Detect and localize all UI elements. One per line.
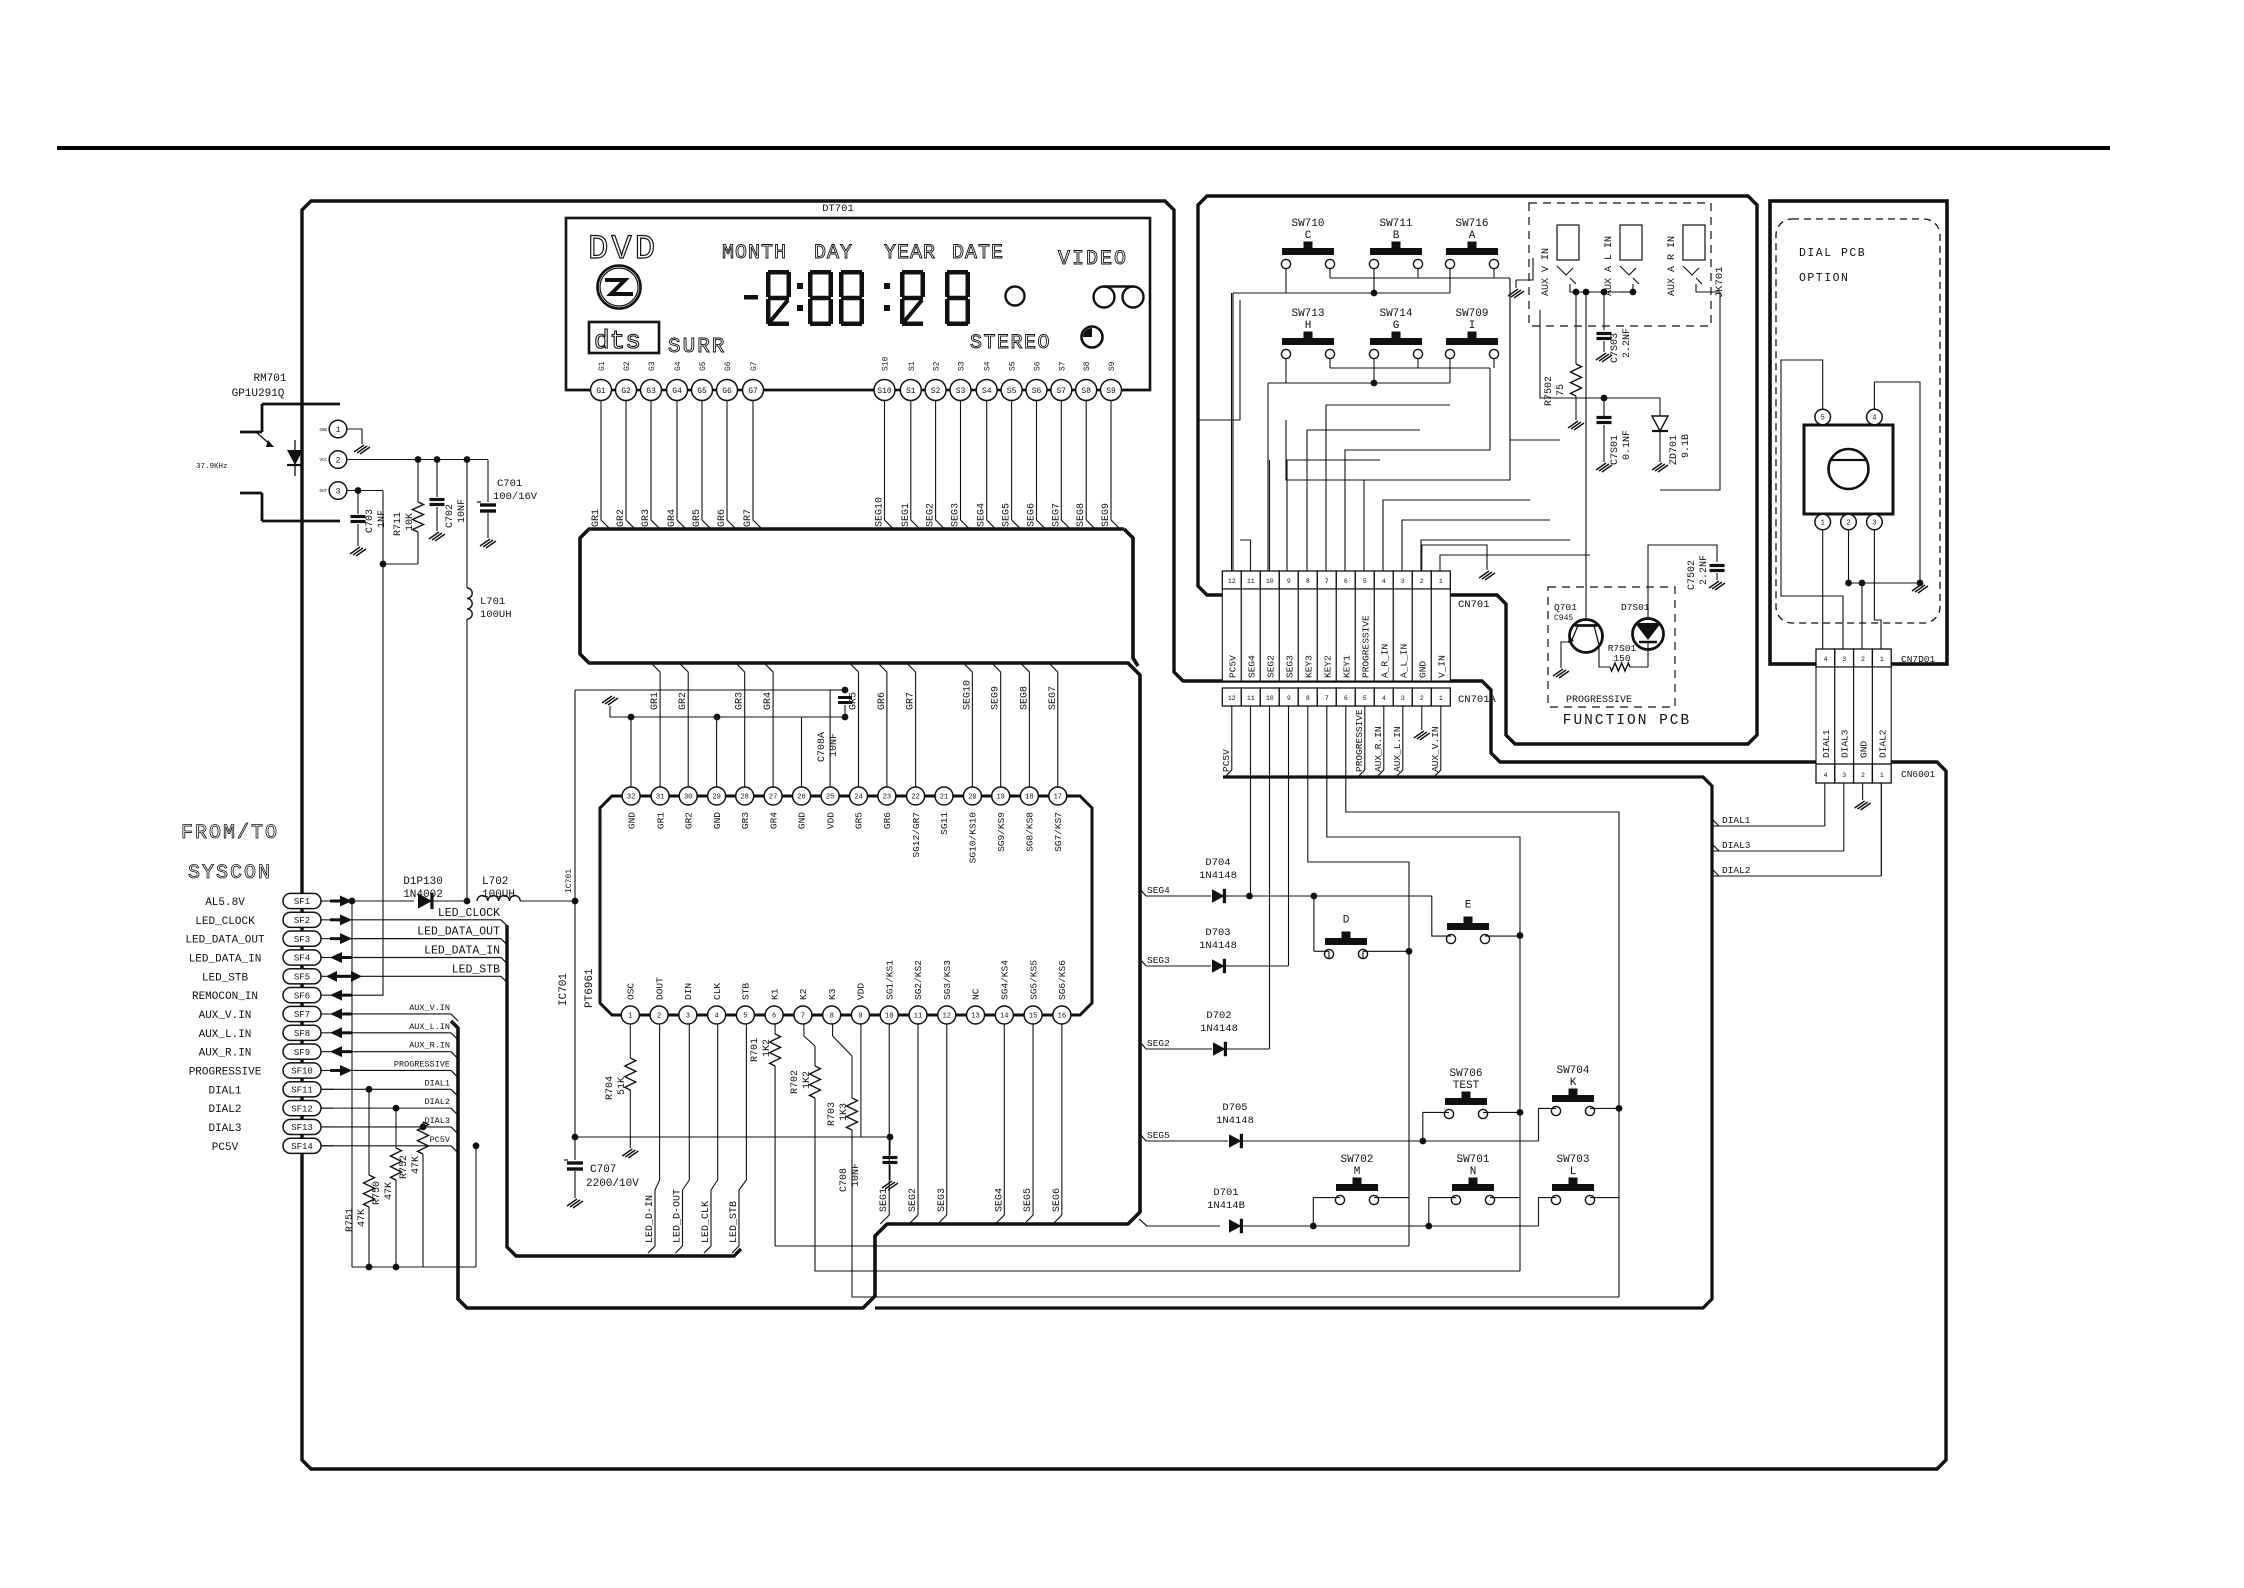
svg-text:S8: S8 <box>1083 361 1092 371</box>
JK701 dashed jack box <box>1529 203 1711 326</box>
svg-text:SEG6: SEG6 <box>1027 503 1038 527</box>
SW701 N <box>1452 1184 1494 1191</box>
svg-text:G7: G7 <box>748 387 758 396</box>
svg-text:VCC: VCC <box>319 459 327 463</box>
svg-text:S7: S7 <box>1056 387 1066 396</box>
svg-text:10NF: 10NF <box>851 1163 862 1187</box>
svg-text:G1: G1 <box>596 387 606 396</box>
svg-text:NC: NC <box>971 988 982 1000</box>
SEG1-SEG6 flags to bus <box>888 1024 890 1216</box>
VDD pin25 to C708A <box>829 690 831 788</box>
svg-text:A_R_IN: A_R_IN <box>1379 644 1390 678</box>
main display PCB border <box>302 201 1946 1469</box>
svg-text:A_L_IN: A_L_IN <box>1398 644 1409 678</box>
svg-text:GR6: GR6 <box>882 812 893 829</box>
svg-text:SG8/KS8: SG8/KS8 <box>1025 812 1036 852</box>
svg-text:GR1: GR1 <box>591 509 602 527</box>
svg-text:G7: G7 <box>750 361 759 371</box>
wires to CN701 cols <box>1287 460 1380 571</box>
svg-text:S6: S6 <box>1034 361 1043 371</box>
svg-text:S2: S2 <box>931 387 941 396</box>
Q701 base / LED wires up <box>1585 292 1587 587</box>
switch row wiring <box>1285 269 1287 294</box>
svg-text:3: 3 <box>1842 772 1846 779</box>
svg-text:11: 11 <box>914 1013 922 1021</box>
svg-text:SW713: SW713 <box>1291 308 1324 320</box>
SW716 A <box>1446 248 1498 255</box>
R702 1K2 <box>803 1024 805 1037</box>
svg-text:20: 20 <box>968 794 976 802</box>
svg-text:SG2/KS2: SG2/KS2 <box>913 960 924 1000</box>
svg-text:1: 1 <box>1880 656 1884 663</box>
svg-text:DATE: DATE <box>952 242 1004 265</box>
svg-text:GR5: GR5 <box>849 692 860 710</box>
CN701 pin up-wires <box>1231 293 1233 571</box>
svg-text:2: 2 <box>1846 520 1850 528</box>
wire pin3 right then down <box>358 490 383 492</box>
svg-text:R704: R704 <box>605 1076 616 1100</box>
svg-text:SEG10: SEG10 <box>962 680 973 710</box>
svg-text:25: 25 <box>826 794 834 802</box>
cassette icon <box>1094 287 1115 308</box>
svg-text:1: 1 <box>1439 578 1443 585</box>
svg-text:2: 2 <box>1861 656 1865 663</box>
C707 electrolytic <box>567 1161 583 1164</box>
svg-text:9: 9 <box>1287 695 1291 702</box>
svg-text:YEAR: YEAR <box>884 242 936 265</box>
svg-text:LED_CLOCK: LED_CLOCK <box>195 916 255 928</box>
svg-text:1K2: 1K2 <box>762 1039 773 1057</box>
svg-text:K: K <box>1570 1077 1577 1089</box>
svg-text:S10: S10 <box>877 387 892 396</box>
svg-text:SEG4: SEG4 <box>1246 655 1257 678</box>
svg-text:A: A <box>1469 230 1476 242</box>
svg-text:SF7: SF7 <box>294 1010 310 1020</box>
svg-text:4: 4 <box>1872 415 1876 423</box>
R703 1K2 <box>832 1024 834 1037</box>
svg-text:SF1: SF1 <box>294 897 310 907</box>
svg-text:21: 21 <box>940 794 948 802</box>
SW713 H <box>1282 338 1334 345</box>
svg-text:G5: G5 <box>697 387 707 396</box>
R711 10K <box>417 460 419 503</box>
svg-text:SF8: SF8 <box>294 1029 310 1039</box>
svg-text:3: 3 <box>1842 656 1846 663</box>
svg-text:2: 2 <box>1861 772 1865 779</box>
svg-text:OSC: OSC <box>626 983 637 1000</box>
svg-text:11: 11 <box>1247 695 1255 702</box>
svg-text:DIAL1: DIAL1 <box>1821 729 1832 758</box>
pullup bottom rail <box>352 1266 476 1268</box>
svg-text:10: 10 <box>885 1013 893 1021</box>
small circle indicator <box>1006 287 1025 306</box>
svg-text:SF4: SF4 <box>294 954 310 964</box>
svg-text:SEG6: SEG6 <box>1052 1188 1063 1212</box>
svg-text:SEG5: SEG5 <box>1147 1130 1170 1141</box>
svg-text:2: 2 <box>1420 695 1424 702</box>
svg-text:PROGRESSIVE: PROGRESSIVE <box>1354 709 1365 772</box>
svg-text:SW709: SW709 <box>1455 308 1488 320</box>
pin2 to CN7D01 col3 <box>1861 583 1863 649</box>
svg-text:DIAL PCB: DIAL PCB <box>1799 247 1866 260</box>
svg-text:FROM/TO: FROM/TO <box>181 822 279 845</box>
svg-text:REMOCON_IN: REMOCON_IN <box>192 991 258 1003</box>
svg-text:GR4: GR4 <box>763 692 774 710</box>
svg-text:1N4148: 1N4148 <box>1199 870 1237 882</box>
svg-text:G4: G4 <box>674 361 683 371</box>
svg-text:I: I <box>1469 320 1476 332</box>
SEG4 row with D704 <box>1140 895 1146 897</box>
svg-text:SURR: SURR <box>668 336 726 359</box>
svg-text:DIAL1: DIAL1 <box>208 1085 241 1097</box>
inner bus CN701A to dial area <box>875 777 1712 1308</box>
svg-text:1K3: 1K3 <box>839 1103 850 1121</box>
svg-text:AUX_R.IN: AUX_R.IN <box>1373 726 1384 772</box>
ZD701 9.1B zener <box>1652 416 1668 431</box>
svg-text:CLK: CLK <box>712 983 723 1000</box>
svg-text:GR1: GR1 <box>655 812 666 829</box>
svg-text:SEG7: SEG7 <box>1048 686 1059 710</box>
svg-text:S4: S4 <box>984 361 993 371</box>
FUNCTION PCB border <box>1198 196 1757 744</box>
svg-text:12: 12 <box>943 1013 951 1021</box>
svg-text:GR2: GR2 <box>678 692 689 710</box>
svg-text:SW714: SW714 <box>1379 308 1412 320</box>
svg-text:LED_DATA_IN: LED_DATA_IN <box>424 944 500 957</box>
svg-text:GND: GND <box>712 812 723 829</box>
svg-text:1N4148: 1N4148 <box>1199 940 1237 952</box>
svg-text:8: 8 <box>1306 695 1310 702</box>
svg-text:SF13: SF13 <box>291 1123 313 1133</box>
C702 10nF <box>436 460 438 498</box>
svg-text:2: 2 <box>657 1013 661 1021</box>
svg-text:Q701: Q701 <box>1554 602 1577 613</box>
svg-text:DIAL2: DIAL2 <box>424 1097 450 1107</box>
svg-text:SEG2: SEG2 <box>926 503 937 527</box>
svg-text:N: N <box>1470 1166 1477 1178</box>
svg-text:6: 6 <box>1344 695 1348 702</box>
svg-text:SEG3: SEG3 <box>937 1188 948 1212</box>
SW709 I <box>1446 338 1498 345</box>
svg-text:1: 1 <box>1880 772 1884 779</box>
svg-text:SG10/KS10: SG10/KS10 <box>968 812 979 864</box>
svg-text:PC5V: PC5V <box>212 1142 239 1154</box>
svg-text:S8: S8 <box>1081 387 1091 396</box>
svg-text:SEG9: SEG9 <box>1101 503 1112 527</box>
svg-text:SF2: SF2 <box>294 916 310 926</box>
svg-text:7: 7 <box>801 1013 805 1021</box>
svg-text:28: 28 <box>740 794 748 802</box>
svg-text:7: 7 <box>1325 695 1329 702</box>
svg-text:DIAL1: DIAL1 <box>424 1078 450 1088</box>
wire RM701 out down to SF6 <box>382 564 384 996</box>
svg-text:LED_STB: LED_STB <box>729 1201 740 1243</box>
svg-text:GR6: GR6 <box>717 509 728 527</box>
svg-text:DIAL2: DIAL2 <box>208 1104 241 1116</box>
svg-text:AUX_V.IN: AUX_V.IN <box>199 1010 252 1022</box>
svg-text:4: 4 <box>1382 695 1386 702</box>
svg-text:9.1B: 9.1B <box>1681 434 1692 458</box>
svg-text:2: 2 <box>1420 578 1424 585</box>
svg-text:C945: C945 <box>1554 614 1573 623</box>
switch D <box>1325 938 1367 945</box>
svg-text:1N4148: 1N4148 <box>1216 1115 1254 1127</box>
svg-text:GR3: GR3 <box>740 812 751 829</box>
svg-text:G2: G2 <box>621 387 631 396</box>
svg-text:SW710: SW710 <box>1291 218 1324 230</box>
SF6 REMOCON wire <box>346 994 383 996</box>
svg-text:SEG5: SEG5 <box>1023 1188 1034 1212</box>
svg-text:RM701: RM701 <box>253 373 286 385</box>
svg-text:100/16V: 100/16V <box>493 491 538 503</box>
CN701A gnd pin2 <box>1421 706 1423 730</box>
svg-text:G4: G4 <box>672 387 682 396</box>
svg-text:STEREO: STEREO <box>970 332 1051 355</box>
svg-text:CN701: CN701 <box>1458 599 1490 611</box>
IC701 top pins <box>622 787 640 805</box>
switch E <box>1447 923 1489 930</box>
svg-text:4: 4 <box>1823 772 1827 779</box>
svg-text:AUX_R.IN: AUX_R.IN <box>199 1048 252 1060</box>
svg-text:GR4: GR4 <box>768 812 779 829</box>
svg-text:10NF: 10NF <box>829 733 840 757</box>
DIAL PCB border <box>1770 201 1947 664</box>
svg-text:SG4/KS4: SG4/KS4 <box>1000 960 1011 1000</box>
svg-text:ZD701: ZD701 <box>1669 435 1680 465</box>
svg-text:C703: C703 <box>365 509 376 533</box>
PROGRESSIVE dashed box <box>1548 587 1675 707</box>
svg-text:75: 75 <box>1556 384 1567 396</box>
svg-text:SF14: SF14 <box>291 1142 313 1152</box>
SW711 B <box>1370 248 1422 255</box>
VFD display DT701 <box>566 218 1150 390</box>
svg-text:GR7: GR7 <box>743 509 754 527</box>
bus top-right end chamfer <box>1124 529 1138 666</box>
svg-text:M: M <box>1354 1166 1361 1178</box>
svg-text:SEG2: SEG2 <box>1265 655 1276 678</box>
svg-text:1: 1 <box>336 426 341 435</box>
svg-text:D705: D705 <box>1222 1102 1247 1114</box>
svg-text:SEG1: SEG1 <box>879 1188 890 1212</box>
SW703 L <box>1552 1184 1594 1191</box>
DIAL PCB dashed inner <box>1776 219 1940 623</box>
svg-text:SG6/KS6: SG6/KS6 <box>1057 960 1068 1000</box>
wire pin2 VCC rail <box>347 459 488 461</box>
svg-text:LED_CLOCK: LED_CLOCK <box>438 907 500 920</box>
svg-text:PC5V: PC5V <box>1221 749 1232 772</box>
svg-text:SEG8: SEG8 <box>1076 503 1087 527</box>
R701 1K2 <box>774 1024 776 1035</box>
svg-text:B: B <box>1393 230 1400 242</box>
wires bus to IC701 top pins <box>651 663 660 672</box>
svg-text:V_IN: V_IN <box>1436 655 1447 678</box>
svg-text:SYSCON: SYSCON <box>188 862 272 885</box>
svg-text:23: 23 <box>883 794 891 802</box>
K1 K2 K3 routing <box>775 1066 1409 1246</box>
svg-text:SG5/KS5: SG5/KS5 <box>1028 960 1039 1000</box>
svg-text:SEG8: SEG8 <box>1019 686 1030 710</box>
svg-text:D7S01: D7S01 <box>1621 602 1650 613</box>
svg-text:GR6: GR6 <box>877 692 888 710</box>
svg-text:G3: G3 <box>648 361 657 371</box>
svg-text:DIAL2: DIAL2 <box>1722 865 1751 876</box>
svg-text:1: 1 <box>1821 520 1825 528</box>
svg-text:GR4: GR4 <box>667 509 678 527</box>
svg-text:15: 15 <box>1029 1013 1037 1021</box>
svg-text:10NF: 10NF <box>457 499 468 523</box>
svg-text:S3: S3 <box>958 361 967 371</box>
D701 row <box>1139 1219 1147 1226</box>
svg-text:26: 26 <box>797 794 805 802</box>
svg-text:R701: R701 <box>750 1038 761 1062</box>
svg-text:D701: D701 <box>1213 1187 1238 1199</box>
svg-text:6: 6 <box>772 1013 776 1021</box>
SF1 AL5.8V wire: diode D1P130 + L702 <box>352 900 414 902</box>
svg-text:DOUT: DOUT <box>654 977 665 1000</box>
svg-text:LED_DATA_OUT: LED_DATA_OUT <box>417 926 500 939</box>
svg-text:17: 17 <box>1054 794 1062 802</box>
svg-text:G6: G6 <box>722 387 732 396</box>
svg-text:VIDEO: VIDEO <box>1058 248 1128 271</box>
svg-text:S9: S9 <box>1108 361 1117 371</box>
svg-text:G2: G2 <box>623 361 632 371</box>
AL5.8V pullup rail <box>351 901 353 1267</box>
svg-text:VDD: VDD <box>856 983 867 1000</box>
SW710 C <box>1282 248 1334 255</box>
wire pin1 to gnd <box>347 429 362 444</box>
SF arrows <box>330 900 341 903</box>
svg-text:47K: 47K <box>411 1156 422 1174</box>
svg-text:KEY3: KEY3 <box>1303 655 1314 678</box>
svg-text:D1P130: D1P130 <box>403 876 443 888</box>
svg-text:SF3: SF3 <box>294 935 310 945</box>
svg-text:AUX_L.IN: AUX_L.IN <box>199 1029 252 1041</box>
svg-text:2.2NF: 2.2NF <box>1699 555 1710 585</box>
svg-text:PROGRESSIVE: PROGRESSIVE <box>1566 695 1632 706</box>
svg-text:SEG4: SEG4 <box>977 503 988 527</box>
svg-text:22: 22 <box>911 794 919 802</box>
svg-text:GND: GND <box>797 812 808 829</box>
svg-text:27: 27 <box>769 794 777 802</box>
svg-text:LED_STB: LED_STB <box>452 963 500 976</box>
svg-text:D704: D704 <box>1205 857 1230 869</box>
svg-text:8: 8 <box>1306 578 1310 585</box>
svg-text:5: 5 <box>1363 695 1367 702</box>
svg-text:FUNCTION PCB: FUNCTION PCB <box>1563 713 1691 729</box>
svg-text:G5: G5 <box>699 361 708 371</box>
svg-text:2: 2 <box>336 456 341 465</box>
svg-text:SEG7: SEG7 <box>1051 503 1062 527</box>
svg-text:13: 13 <box>971 1013 979 1021</box>
svg-text:LED_DATA_OUT: LED_DATA_OUT <box>185 935 265 947</box>
svg-text:C7S01: C7S01 <box>1610 435 1621 465</box>
svg-text:STB: STB <box>741 983 752 1000</box>
svg-text:S10: S10 <box>882 356 891 371</box>
svg-text:R702: R702 <box>790 1070 801 1094</box>
svg-text:S4: S4 <box>982 387 992 396</box>
LED bus staircase from SF2-SF5 <box>346 919 501 921</box>
svg-text:GR1: GR1 <box>650 692 661 710</box>
svg-text:L702: L702 <box>482 876 508 888</box>
svg-text:SEG9: SEG9 <box>991 686 1002 710</box>
CN701 connector <box>1222 571 1241 589</box>
svg-text:R752: R752 <box>399 1155 410 1179</box>
VDD wire to C708 <box>575 1136 890 1138</box>
IC701 bottom pins <box>621 1006 639 1024</box>
svg-text:GR7: GR7 <box>906 692 917 710</box>
KEY column verticals <box>1250 706 1252 896</box>
svg-text:2200/10V: 2200/10V <box>586 1178 639 1190</box>
svg-text:GR5: GR5 <box>854 812 865 829</box>
svg-text:12: 12 <box>1228 695 1236 702</box>
svg-text:10K: 10K <box>405 513 416 531</box>
svg-text:14: 14 <box>1000 1013 1008 1021</box>
IC701 supply vertical <box>574 690 576 1160</box>
svg-text:DIAL2: DIAL2 <box>1877 729 1888 758</box>
svg-text:SEG3: SEG3 <box>1284 655 1295 678</box>
svg-text:16: 16 <box>1058 1013 1066 1021</box>
svg-text:4: 4 <box>715 1013 719 1021</box>
svg-text:4: 4 <box>1823 656 1827 663</box>
svg-text:S7: S7 <box>1058 361 1067 371</box>
svg-text:DIAL3: DIAL3 <box>1722 840 1751 851</box>
svg-text:SW701: SW701 <box>1456 1154 1489 1166</box>
svg-text:GR3: GR3 <box>735 692 746 710</box>
svg-text:SG11: SG11 <box>939 812 950 835</box>
7-segment digits <box>744 295 758 300</box>
svg-text:SF12: SF12 <box>291 1104 313 1114</box>
svg-text:CN6001: CN6001 <box>1901 769 1936 780</box>
svg-text:SW703: SW703 <box>1556 1154 1589 1166</box>
svg-text:R751: R751 <box>345 1208 356 1232</box>
svg-text:LED_D-IN: LED_D-IN <box>645 1195 656 1243</box>
C7502 2.2NF <box>1690 545 1717 562</box>
svg-text:32: 32 <box>627 794 635 802</box>
svg-text:dts: dts <box>594 326 641 356</box>
svg-text:PROGRESSIVE: PROGRESSIVE <box>1360 615 1371 678</box>
transistor Q701 <box>1570 620 1603 653</box>
svg-text:S6: S6 <box>1032 387 1042 396</box>
svg-text:K1: K1 <box>769 988 780 1000</box>
svg-text:8: 8 <box>830 1013 834 1021</box>
svg-text:1: 1 <box>628 1013 632 1021</box>
svg-text:PC5V: PC5V <box>1227 655 1238 678</box>
svg-text:3: 3 <box>1872 520 1876 528</box>
svg-text:R750: R750 <box>372 1181 383 1205</box>
svg-text:SEG3: SEG3 <box>1147 955 1170 966</box>
svg-text:GR5: GR5 <box>692 509 703 527</box>
svg-text:D703: D703 <box>1205 927 1230 939</box>
svg-text:G3: G3 <box>646 387 656 396</box>
svg-text:47K: 47K <box>384 1182 395 1200</box>
svg-text:G6: G6 <box>724 361 733 371</box>
SW714 G <box>1370 338 1422 345</box>
R704 51K on OSC <box>629 1024 631 1059</box>
svg-text:51K: 51K <box>617 1077 628 1095</box>
svg-text:SEG2: SEG2 <box>908 1188 919 1212</box>
svg-text:S1: S1 <box>908 361 917 371</box>
encoder wires <box>1781 360 1843 649</box>
svg-text:KEY2: KEY2 <box>1322 655 1333 678</box>
R752 <box>422 1122 424 1127</box>
svg-text:C7S03: C7S03 <box>1610 333 1621 363</box>
svg-text:100UH: 100UH <box>482 889 515 901</box>
svg-text:SG12/GR7: SG12/GR7 <box>911 812 922 858</box>
svg-text:E: E <box>1465 900 1472 912</box>
svg-text:19: 19 <box>996 794 1004 802</box>
R7502 75 <box>1571 364 1582 396</box>
diode D702 / SEG2 row <box>1140 1048 1146 1050</box>
